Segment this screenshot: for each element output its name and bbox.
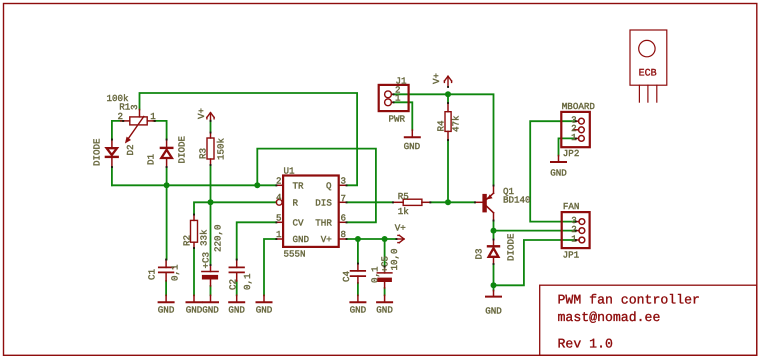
supply V+ near J1 <box>444 76 451 86</box>
svg-text:3: 3 <box>129 104 140 110</box>
svg-text:C2: C2 <box>228 279 239 290</box>
svg-text:V+: V+ <box>431 73 442 84</box>
svg-text:C1: C1 <box>147 268 158 280</box>
ground C5 <box>377 295 392 302</box>
ground J1 <box>405 130 420 137</box>
svg-text:Rev 1.0: Rev 1.0 <box>558 337 613 352</box>
svg-text:1k: 1k <box>398 206 410 217</box>
junction dot collector/JP1.2 <box>491 228 497 234</box>
svg-text:150k: 150k <box>216 137 227 160</box>
svg-text:3: 3 <box>341 175 347 186</box>
wire D3 junction to JP1.1 <box>494 240 576 285</box>
resistor R5 <box>393 199 430 205</box>
wire CV pin5 to C2 <box>237 222 277 259</box>
wire C2 lower <box>236 281 238 295</box>
svg-text:PWM fan controller: PWM fan controller <box>558 292 700 307</box>
svg-text:JP1: JP1 <box>563 250 580 261</box>
svg-text:GND: GND <box>350 305 367 316</box>
svg-text:GND: GND <box>293 234 310 245</box>
wire Q output to R1 wiper <box>140 93 358 185</box>
wire JP2.3 to JP1.3 tach <box>530 121 575 221</box>
junction dot R3/R pin4 <box>208 199 214 205</box>
wire GND pin1 <box>264 239 276 295</box>
wire TR horizontal net <box>112 184 276 186</box>
connector J1 PWR <box>379 85 409 111</box>
wire C4 drop <box>357 239 359 264</box>
junction dot D3/GND/JP1.1 <box>491 282 497 288</box>
wire R4 top <box>447 94 449 103</box>
svg-text:1: 1 <box>395 93 401 104</box>
package drawing ECB <box>630 30 667 102</box>
svg-text:FAN: FAN <box>563 201 580 212</box>
svg-text:V+: V+ <box>321 234 332 245</box>
ground C2 <box>229 295 244 302</box>
ground C3 <box>203 295 218 302</box>
potentiometer R1 <box>121 110 155 144</box>
svg-text:+C3: +C3 <box>201 252 212 269</box>
svg-text:MBOARD: MBOARD <box>562 101 596 112</box>
svg-text:0,1: 0,1 <box>242 273 253 290</box>
svg-text:1: 1 <box>571 132 577 143</box>
pin connection points <box>111 86 577 268</box>
svg-text:R3: R3 <box>198 148 209 159</box>
supply V+ above R3 <box>207 113 214 121</box>
svg-text:D3: D3 <box>474 248 485 259</box>
svg-text:R5: R5 <box>398 191 409 202</box>
diode D1 <box>161 140 172 168</box>
ground C1 <box>159 295 174 302</box>
diode D3 <box>488 240 499 265</box>
wire D3 bottom junction <box>493 264 495 285</box>
wire TR to THR loop <box>257 149 376 223</box>
junction dot C5 tap <box>382 236 388 242</box>
wire V+ to R3 <box>210 121 212 133</box>
svg-text:6: 6 <box>341 212 347 223</box>
op-amp timer U1 555 <box>276 176 346 247</box>
svg-text:DIODE: DIODE <box>177 135 188 163</box>
title block box <box>540 285 757 355</box>
svg-text:GND: GND <box>202 305 219 316</box>
wire R1.1 to D1 top <box>154 121 167 140</box>
svg-text:BD140: BD140 <box>503 194 531 205</box>
svg-text:CV: CV <box>293 217 305 228</box>
capacitor C1 <box>159 260 174 281</box>
svg-text:C4: C4 <box>341 270 352 282</box>
resistor R2 <box>191 215 198 249</box>
wire D2 bottom to TR net <box>111 167 113 185</box>
resistor R3 <box>207 133 214 166</box>
supply V+ at pin8 <box>397 235 405 242</box>
wire C1 lower <box>165 281 167 295</box>
svg-text:2: 2 <box>118 111 124 122</box>
wire DIS pin7 to R5 <box>347 201 393 203</box>
svg-text:0,1: 0,1 <box>170 264 181 281</box>
wire JP2.1 to GND <box>559 138 576 155</box>
wire V+ pin8 rail <box>347 238 397 240</box>
wire Q1 collector to JP1.2 <box>494 230 576 232</box>
svg-text:GND: GND <box>256 305 273 316</box>
junction dot D1/C1/TR <box>164 182 170 188</box>
capacitor C5 polarized <box>377 267 392 289</box>
wire V+ rail J1 to Q1 emitter <box>394 94 494 185</box>
svg-text:U1: U1 <box>284 165 296 176</box>
svg-text:GND: GND <box>376 305 393 316</box>
svg-text:Q: Q <box>326 180 332 191</box>
wire C5 drop <box>384 239 386 267</box>
svg-text:R4: R4 <box>436 120 447 132</box>
wire R2 bottom to GND <box>193 248 195 295</box>
capacitor C2 <box>229 260 244 282</box>
svg-text:7: 7 <box>341 193 347 204</box>
svg-text:GND: GND <box>186 305 203 316</box>
svg-text:R: R <box>293 197 299 208</box>
svg-text:10,0: 10,0 <box>389 248 400 270</box>
wire R3 bottom to R net <box>210 165 212 202</box>
wire C5 lower <box>384 288 386 295</box>
resistor R4 <box>445 103 451 140</box>
junction dot C4 tap <box>355 236 361 242</box>
capacitor C3 polarized <box>202 265 218 286</box>
svg-text:GND: GND <box>550 168 567 179</box>
svg-text:V+: V+ <box>196 108 207 119</box>
svg-text:1: 1 <box>571 233 577 244</box>
junction dot V+ rail <box>445 91 451 97</box>
wire C1 drop <box>166 185 168 259</box>
wire D3 junction to GND <box>493 285 495 290</box>
ground R2 <box>187 295 202 302</box>
svg-text:DIODE: DIODE <box>506 233 517 261</box>
svg-text:47k: 47k <box>451 115 462 132</box>
wire C4 lower <box>357 283 359 295</box>
svg-text:GND: GND <box>228 305 245 316</box>
capacitor C4 <box>351 264 366 284</box>
svg-text:D2: D2 <box>125 144 136 155</box>
svg-text:V+: V+ <box>395 222 406 233</box>
wire R pin4 to R2 top <box>194 202 276 214</box>
junction dot R4/R5/base <box>445 199 451 205</box>
svg-text:33k: 33k <box>199 229 210 246</box>
wire R4 bottom to base net <box>447 140 449 202</box>
svg-text:4: 4 <box>276 192 282 203</box>
connector JP2 MBOARD <box>561 112 590 147</box>
junction dot THR riser <box>254 182 260 188</box>
svg-text:GND: GND <box>404 141 421 152</box>
svg-text:8: 8 <box>341 229 347 240</box>
svg-text:GND: GND <box>158 305 175 316</box>
svg-text:PWR: PWR <box>389 114 406 125</box>
wire C3 drop <box>210 202 212 265</box>
wire R1.2 to D2 top <box>112 121 124 140</box>
wire R5 to Q1 base <box>430 201 475 203</box>
diode D2 <box>106 140 118 168</box>
svg-text:THR: THR <box>315 217 332 228</box>
connector JP1 FAN <box>562 212 590 248</box>
svg-text:R2: R2 <box>182 235 193 246</box>
wire D1 bottom to TR net <box>166 167 168 185</box>
svg-text:DIODE: DIODE <box>92 138 103 166</box>
ground JP2 <box>551 156 566 163</box>
svg-text:GND: GND <box>485 306 502 317</box>
svg-text:TR: TR <box>293 180 305 191</box>
svg-text:JP2: JP2 <box>563 148 580 159</box>
transistor Q1 BD140 PNP <box>475 186 494 221</box>
svg-text:555N: 555N <box>284 249 306 260</box>
svg-text:ECB: ECB <box>639 68 657 79</box>
ground D3 <box>486 291 501 297</box>
svg-text:D1: D1 <box>146 153 157 165</box>
svg-text:mast@nomad.ee: mast@nomad.ee <box>558 310 661 325</box>
ground C4 <box>350 295 365 302</box>
ground U1 pin1 <box>257 295 272 302</box>
svg-text:DIS: DIS <box>315 197 332 208</box>
wire collector to D3 top <box>493 221 495 240</box>
wire C3 lower <box>210 286 212 295</box>
svg-text:220,0: 220,0 <box>213 224 224 252</box>
wire J1 pin1 to GND <box>394 102 413 130</box>
